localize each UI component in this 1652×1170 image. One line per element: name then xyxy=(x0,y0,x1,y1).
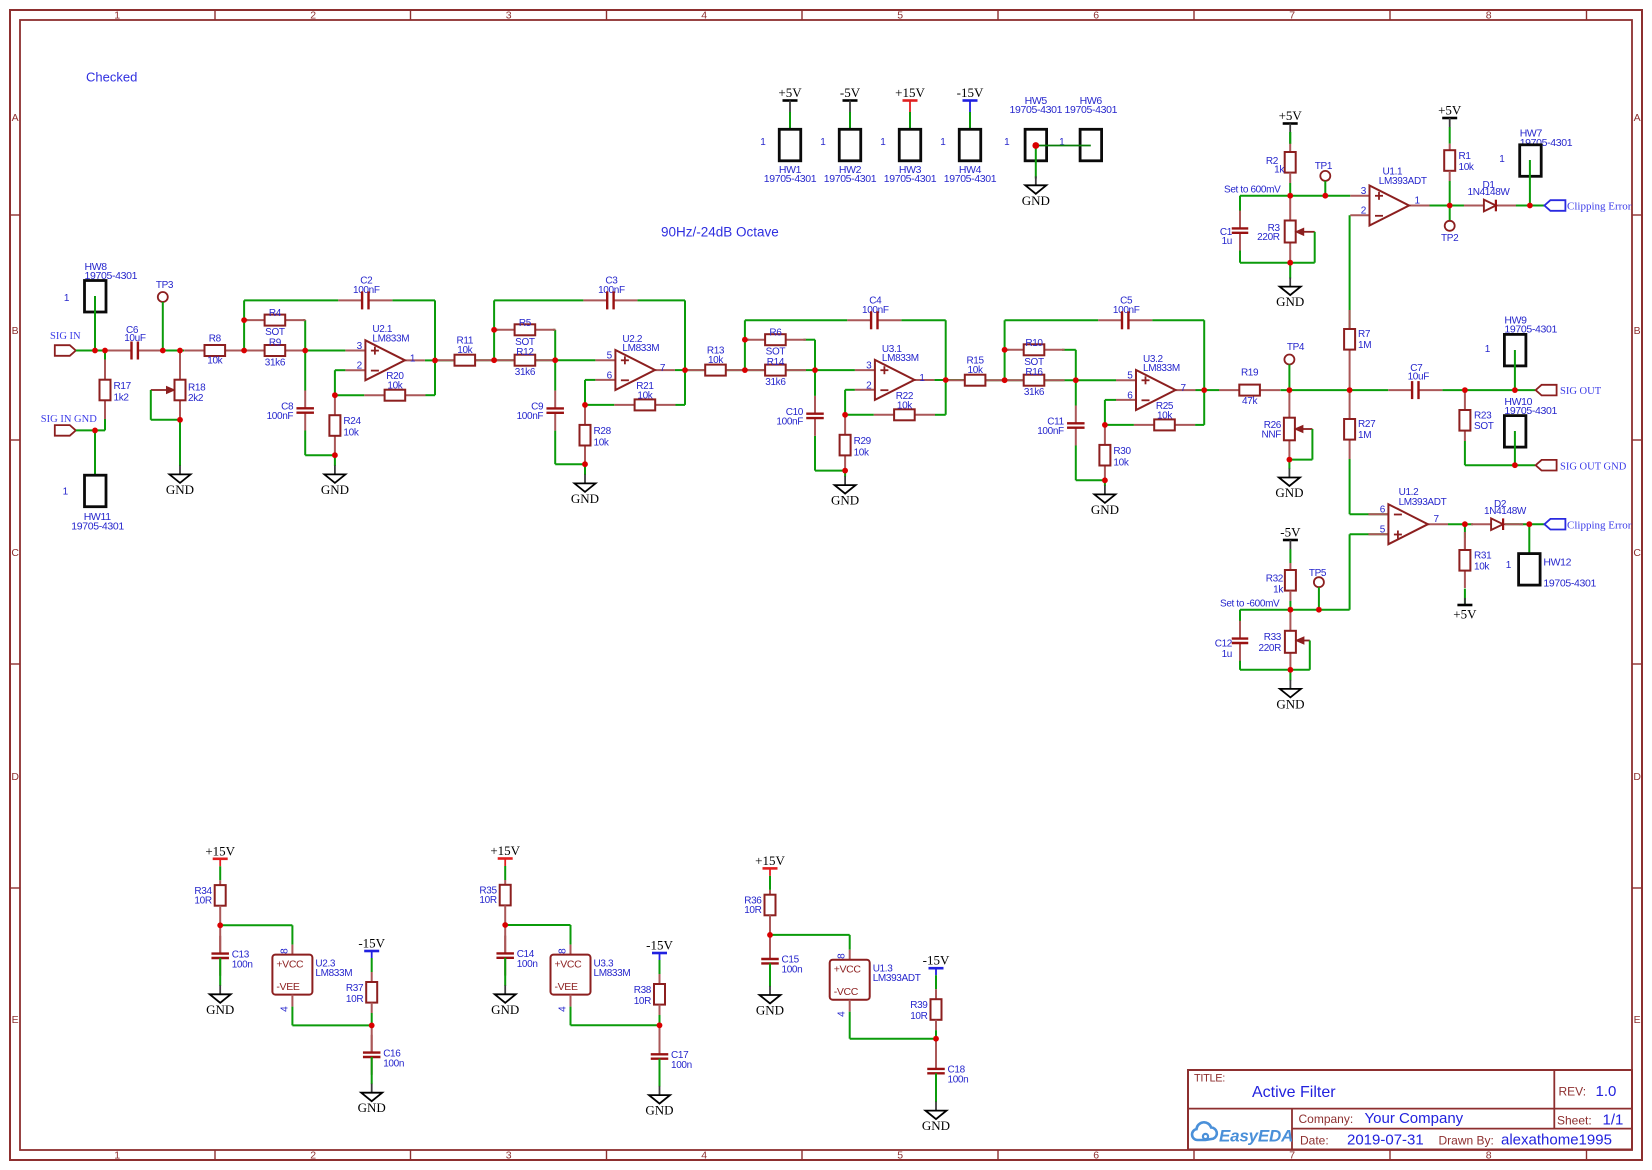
junction stage3 bottom xyxy=(842,468,848,474)
wire HW5 to GND xyxy=(1035,146,1037,179)
svg-text:R27: R27 xyxy=(1358,419,1376,430)
svg-text:R24: R24 xyxy=(343,416,361,427)
op-amp U2.2 LM833M xyxy=(595,334,675,390)
wire U3.3 VCC net xyxy=(505,925,570,945)
resistor R12 31k6 xyxy=(494,347,555,378)
junction stage3 feedback xyxy=(842,412,848,418)
wire +5V to HW1 xyxy=(789,112,791,145)
op-amp U1.1 LM393ADT xyxy=(1350,166,1429,225)
resistor R7 1M xyxy=(1344,215,1371,390)
wire U2.3 VEE net xyxy=(292,1007,371,1026)
resistor R35 10R xyxy=(479,880,510,925)
svg-text:C: C xyxy=(11,547,19,559)
svg-text:+15V: +15V xyxy=(755,853,785,868)
svg-text:5: 5 xyxy=(897,1149,903,1161)
svg-text:-15V: -15V xyxy=(957,85,984,100)
wire R3 to ground xyxy=(1289,263,1291,279)
power symbol +15V U2.3 xyxy=(205,843,235,866)
svg-text:1k: 1k xyxy=(1273,585,1284,596)
svg-text:31k6: 31k6 xyxy=(765,377,786,388)
connector HW2 19705-4301 xyxy=(820,129,877,185)
svg-text:R1: R1 xyxy=(1459,151,1472,162)
svg-text:1: 1 xyxy=(1485,344,1491,355)
svg-text:D: D xyxy=(1633,771,1641,783)
test point TP1 xyxy=(1315,161,1333,196)
resistor R22 10k feedback xyxy=(874,391,935,421)
svg-text:31k6: 31k6 xyxy=(265,358,286,369)
svg-text:GND: GND xyxy=(1276,696,1304,711)
net flag Clipping Error (bottom) xyxy=(1544,519,1631,532)
ground GND stage2 xyxy=(571,474,599,506)
svg-text:R29: R29 xyxy=(854,436,872,447)
power symbol +5V below R31 xyxy=(1453,598,1477,622)
resistor R39 10R xyxy=(910,975,941,1038)
svg-text:-15V: -15V xyxy=(923,953,950,968)
svg-text:R5: R5 xyxy=(519,318,532,329)
svg-text:GND: GND xyxy=(922,1118,950,1133)
capacitor C14 100n xyxy=(496,925,537,986)
junction R18 wiper xyxy=(177,417,183,423)
wire U1.2 output xyxy=(1448,523,1545,525)
wire SIG OUT GND row xyxy=(1465,464,1535,466)
junction stage4 SOT tap xyxy=(1002,347,1008,353)
svg-text:1M: 1M xyxy=(1358,430,1371,441)
IC U3.3 LM833M power pins xyxy=(551,945,631,1012)
svg-text:19705-4301: 19705-4301 xyxy=(764,173,817,185)
connector HW9 19705-4301 xyxy=(1485,314,1558,366)
Checked annotation xyxy=(86,70,137,85)
svg-text:R38: R38 xyxy=(634,985,652,996)
resistor R16 31k6 xyxy=(1003,367,1064,398)
svg-text:GND: GND xyxy=(358,1100,386,1115)
svg-text:10k: 10k xyxy=(457,345,473,356)
op-amp U3.1 LM833M xyxy=(855,344,935,400)
svg-text:R14: R14 xyxy=(767,357,785,368)
junction R1 bottom xyxy=(1447,203,1453,209)
svg-text:1: 1 xyxy=(820,137,826,148)
wire +15V to R36 xyxy=(769,876,771,890)
svg-text:4: 4 xyxy=(701,1149,707,1161)
svg-text:Date:: Date: xyxy=(1300,1134,1329,1148)
svg-text:100nF: 100nF xyxy=(776,416,803,427)
resistor R6 SOT xyxy=(745,328,806,358)
op-amp U1.2 LM393ADT xyxy=(1368,487,1448,544)
svg-text:19705-4301: 19705-4301 xyxy=(944,173,997,185)
resistor R38 10R xyxy=(634,960,665,1025)
junction R33 bottom xyxy=(1288,667,1294,673)
svg-text:SOT: SOT xyxy=(1024,357,1044,368)
svg-text:1k: 1k xyxy=(1274,165,1285,176)
svg-text:Active Filter: Active Filter xyxy=(1252,1084,1336,1101)
svg-text:8: 8 xyxy=(279,948,290,954)
capacitor C5 100nF xyxy=(1098,295,1152,329)
svg-text:GND: GND xyxy=(756,1003,784,1018)
junction TP1 xyxy=(1322,193,1328,199)
resistor R27 1M xyxy=(1344,390,1376,514)
svg-text:19705-4301: 19705-4301 xyxy=(884,173,937,185)
connector HW12 19705-4301 xyxy=(1506,524,1597,589)
svg-text:Clipping Error: Clipping Error xyxy=(1567,519,1632,531)
ground GND stage3 xyxy=(831,476,859,508)
svg-text:LM833M: LM833M xyxy=(372,334,409,345)
wire stage2 ground stub xyxy=(584,464,586,475)
svg-text:3: 3 xyxy=(506,9,512,21)
junction R23 tap xyxy=(1462,387,1468,393)
resistor R36 10R xyxy=(744,890,775,935)
junction HW5 xyxy=(1032,142,1039,149)
svg-text:220R: 220R xyxy=(1258,643,1281,654)
svg-text:100n: 100n xyxy=(517,959,538,970)
svg-text:E: E xyxy=(1634,1014,1641,1026)
junction stage3 SOT tap xyxy=(742,337,748,343)
svg-text:Set to 600mV: Set to 600mV xyxy=(1224,184,1281,195)
svg-text:EasyEDA: EasyEDA xyxy=(1219,1127,1293,1146)
resistor R30 10k to ground xyxy=(1099,425,1131,480)
svg-text:7: 7 xyxy=(1289,1149,1295,1161)
op-amp U3.2 LM833M xyxy=(1116,354,1196,410)
svg-text:1k2: 1k2 xyxy=(114,392,130,403)
connector HW1 19705-4301 xyxy=(760,129,817,185)
svg-text:LM833M: LM833M xyxy=(882,353,919,364)
svg-text:7: 7 xyxy=(1434,514,1440,525)
junction SIG IN GND xyxy=(92,428,98,434)
svg-text:4: 4 xyxy=(279,1006,290,1012)
svg-text:Checked: Checked xyxy=(86,70,137,85)
wire U3.3 VEE net xyxy=(571,1007,660,1026)
junction R18 tap xyxy=(177,348,183,354)
svg-text:6: 6 xyxy=(1380,505,1386,516)
svg-text:8: 8 xyxy=(558,948,569,954)
svg-text:2019-07-31: 2019-07-31 xyxy=(1347,1132,1424,1149)
capacitor C15 100n xyxy=(761,935,802,987)
svg-text:Sheet:: Sheet: xyxy=(1557,1114,1592,1128)
test point TP2 xyxy=(1441,206,1459,245)
svg-text:R8: R8 xyxy=(209,334,222,345)
svg-text:6: 6 xyxy=(1127,390,1133,401)
svg-text:+15V: +15V xyxy=(895,85,925,100)
resistor R9 31k6 xyxy=(244,338,305,369)
svg-text:10k: 10k xyxy=(387,381,403,392)
svg-text:10k: 10k xyxy=(1459,162,1475,173)
svg-text:+5V: +5V xyxy=(1453,607,1477,622)
junction R26 wiper xyxy=(1287,457,1293,463)
ground GND below R3 xyxy=(1276,278,1304,310)
svg-text:6: 6 xyxy=(1093,9,1099,21)
junction R2 bottom xyxy=(1287,193,1293,199)
svg-text:10uF: 10uF xyxy=(1408,371,1430,382)
junction stage1 J2 xyxy=(302,348,308,354)
IC U1.3 LM393ADT power pins xyxy=(830,950,921,1017)
ground GND below C17 xyxy=(645,1086,673,1118)
svg-text:LM833M: LM833M xyxy=(622,343,659,354)
svg-text:1: 1 xyxy=(410,353,416,364)
capacitor C17 100n xyxy=(651,1025,692,1086)
svg-text:10R: 10R xyxy=(744,905,761,916)
junction R7/R27 xyxy=(1347,387,1353,393)
junction HW12 xyxy=(1526,521,1532,527)
svg-text:D: D xyxy=(11,771,19,783)
junction stage3 input xyxy=(742,367,748,373)
junction stage1 bottom xyxy=(332,452,338,458)
power symbol -15V U1.3 xyxy=(923,953,950,976)
junction TP5 xyxy=(1316,607,1322,613)
svg-text:LM833M: LM833M xyxy=(1143,363,1180,374)
wire SIG IN GND row xyxy=(76,419,105,430)
svg-text:B: B xyxy=(1634,325,1641,337)
svg-text:Drawn By:: Drawn By: xyxy=(1439,1134,1494,1148)
wire SIG IN to junctions xyxy=(76,350,108,352)
wire stage4 main line xyxy=(980,320,1205,480)
svg-text:10R: 10R xyxy=(194,895,211,906)
junction stage2 bottom xyxy=(582,461,588,467)
svg-text:R23: R23 xyxy=(1474,411,1492,422)
capacitor C10 100nF xyxy=(776,396,823,436)
junction R17 tap xyxy=(102,348,108,354)
svg-text:R28: R28 xyxy=(594,426,612,437)
wire set to 600mV node xyxy=(1240,183,1350,263)
wire +5V to R2 xyxy=(1289,132,1291,144)
wire C6 to R8 xyxy=(162,350,185,352)
svg-text:LM833M: LM833M xyxy=(594,968,631,979)
svg-text:R16: R16 xyxy=(1025,367,1043,378)
resistor R32 1k xyxy=(1266,549,1296,610)
wire stage3 main line xyxy=(720,320,946,470)
wire -15V to HW4 xyxy=(969,112,971,145)
resistor R21 10k feedback xyxy=(614,381,675,411)
svg-text:R17: R17 xyxy=(114,381,132,392)
svg-text:E: E xyxy=(12,1014,19,1026)
svg-text:100nF: 100nF xyxy=(1037,426,1064,437)
svg-text:100nF: 100nF xyxy=(353,285,380,296)
svg-text:SIG IN: SIG IN xyxy=(50,331,81,342)
wire HW11 pin xyxy=(94,430,96,490)
svg-text:10k: 10k xyxy=(207,356,223,367)
resistor R31 10k xyxy=(1459,524,1492,605)
junction R31 top xyxy=(1462,521,1468,527)
net flag SIG IN GND xyxy=(41,414,97,436)
junction stage4 input xyxy=(1002,377,1008,383)
junction HW7 xyxy=(1527,203,1533,209)
junction TP3 xyxy=(160,348,166,354)
svg-text:LM833M: LM833M xyxy=(315,968,352,979)
diode D2 1N4148W xyxy=(1471,499,1527,530)
svg-text:5: 5 xyxy=(607,351,613,362)
svg-text:1u: 1u xyxy=(1222,649,1232,660)
svg-text:3: 3 xyxy=(866,361,872,372)
svg-text:SOT: SOT xyxy=(515,337,535,348)
junction HW9 xyxy=(1512,387,1518,393)
power symbol +15V xyxy=(895,85,925,112)
resistor R24 10k to ground xyxy=(329,395,361,455)
svg-text:A: A xyxy=(1634,112,1641,124)
svg-text:4: 4 xyxy=(558,1006,569,1012)
resistor R1 10k xyxy=(1444,127,1475,206)
junction stage3 output xyxy=(943,377,949,383)
power symbol +15V U1.3 xyxy=(755,853,785,876)
power symbol -15V U3.3 xyxy=(646,938,673,961)
svg-text:R30: R30 xyxy=(1113,446,1131,457)
svg-text:GND: GND xyxy=(321,482,349,497)
svg-text:R9: R9 xyxy=(269,338,282,349)
svg-text:5: 5 xyxy=(897,9,903,21)
junction R39 bottom xyxy=(933,1036,939,1042)
resistor R37 10R xyxy=(346,958,377,1025)
wire U1.1 output xyxy=(1430,205,1545,207)
svg-text:R33: R33 xyxy=(1264,632,1282,643)
svg-text:19705-4301: 19705-4301 xyxy=(1065,104,1118,116)
svg-text:10k: 10k xyxy=(1157,410,1173,421)
capacitor C7 10uF xyxy=(1388,363,1442,399)
svg-text:100nF: 100nF xyxy=(598,285,625,296)
wire +15V to R35 xyxy=(504,866,506,880)
svg-text:1: 1 xyxy=(114,1149,120,1161)
resistor R15 10k xyxy=(945,356,1006,386)
svg-text:1: 1 xyxy=(1506,560,1512,571)
svg-text:GND: GND xyxy=(831,493,859,508)
svg-text:R6: R6 xyxy=(769,328,782,339)
svg-text:8: 8 xyxy=(1486,9,1492,21)
ground GND below C18 xyxy=(922,1102,950,1134)
capacitor C11 100nF xyxy=(1037,406,1084,446)
svg-text:SOT: SOT xyxy=(265,327,285,338)
svg-text:GND: GND xyxy=(1275,485,1303,500)
svg-text:GND: GND xyxy=(166,482,194,497)
svg-text:TP3: TP3 xyxy=(156,280,174,291)
ground GND below R33 xyxy=(1276,680,1304,712)
svg-text:Clipping Error: Clipping Error xyxy=(1567,201,1632,213)
svg-text:100nF: 100nF xyxy=(862,305,889,316)
resistor R19 47k xyxy=(1219,368,1280,408)
svg-text:2: 2 xyxy=(357,361,363,372)
potentiometer R33 220R xyxy=(1258,610,1309,670)
svg-text:6: 6 xyxy=(1093,1149,1099,1161)
svg-text:R4: R4 xyxy=(269,308,282,319)
connector HW5 19705-4301 xyxy=(1004,95,1063,161)
junction stage4 feedback xyxy=(1102,422,1108,428)
wire HW9 pin xyxy=(1514,350,1516,390)
connector HW10 19705-4301 xyxy=(1504,396,1557,465)
svg-text:TITLE:: TITLE: xyxy=(1194,1073,1225,1085)
svg-text:-15V: -15V xyxy=(646,938,673,953)
ground GND below C14 xyxy=(491,985,519,1017)
svg-text:10R: 10R xyxy=(479,895,496,906)
capacitor C16 100n xyxy=(363,1025,404,1084)
power symbol -15V U2.3 xyxy=(358,936,385,959)
wire U1.3 VCC net xyxy=(770,935,850,950)
test point TP5 xyxy=(1309,568,1327,610)
wire stage2 main line xyxy=(469,300,685,464)
power symbol -5V above R32 xyxy=(1280,525,1301,550)
net flag Clipping Error (top) xyxy=(1544,200,1631,213)
resistor R28 10k to ground xyxy=(580,405,612,464)
svg-text:GND: GND xyxy=(1022,193,1050,208)
resistor R2 1k xyxy=(1266,132,1296,183)
svg-text:1: 1 xyxy=(1004,137,1010,148)
test point TP3 xyxy=(156,280,174,351)
capacitor C18 100n xyxy=(927,1039,968,1102)
junction stage2 input xyxy=(491,357,497,363)
svg-text:R7: R7 xyxy=(1358,329,1371,340)
wire +15V to HW3 xyxy=(909,112,911,145)
svg-text:2: 2 xyxy=(866,380,872,391)
svg-text:R37: R37 xyxy=(346,983,364,994)
svg-text:10k: 10k xyxy=(1113,457,1129,468)
wire U1.2 plus input xyxy=(1319,534,1389,610)
svg-text:100n: 100n xyxy=(948,1075,969,1086)
capacitor C6 10uF xyxy=(108,325,162,360)
svg-text:100nF: 100nF xyxy=(1113,305,1140,316)
svg-text:LM393ADT: LM393ADT xyxy=(1399,497,1447,508)
potentiometer R3 220R xyxy=(1257,196,1315,263)
svg-text:+VCC: +VCC xyxy=(276,959,304,971)
svg-text:100n: 100n xyxy=(383,1058,404,1069)
connector HW11 19705-4301 xyxy=(63,475,125,532)
svg-text:1: 1 xyxy=(760,137,766,148)
svg-text:19705-4301: 19705-4301 xyxy=(1543,577,1596,589)
power symbol +15V U3.3 xyxy=(490,843,520,866)
capacitor C12 1u xyxy=(1215,621,1249,661)
net flag SIG IN xyxy=(50,331,81,356)
ground GND below C13 xyxy=(206,985,234,1017)
svg-text:100nF: 100nF xyxy=(267,411,294,422)
svg-text:10k: 10k xyxy=(708,355,724,366)
svg-text:2: 2 xyxy=(1361,206,1367,217)
resistor R13 10k xyxy=(685,346,746,376)
wire HW8 pin xyxy=(94,296,96,351)
svg-text:GND: GND xyxy=(491,1002,519,1017)
junction R36 bottom xyxy=(767,932,773,938)
svg-text:220R: 220R xyxy=(1257,232,1280,243)
svg-text:3: 3 xyxy=(357,341,363,352)
resistor R25 10k feedback xyxy=(1134,401,1195,431)
svg-text:10k: 10k xyxy=(637,390,653,401)
svg-text:7: 7 xyxy=(660,363,666,374)
ground GND below C16 xyxy=(358,1084,386,1116)
svg-text:R32: R32 xyxy=(1266,574,1284,585)
junction HW10 xyxy=(1512,462,1518,468)
svg-text:2: 2 xyxy=(310,1149,316,1161)
svg-text:1: 1 xyxy=(919,373,925,384)
svg-text:31k6: 31k6 xyxy=(515,367,536,378)
svg-text:REV:: REV: xyxy=(1559,1085,1587,1099)
connector HW7 19705-4301 xyxy=(1499,127,1572,205)
svg-text:R10: R10 xyxy=(1025,338,1043,349)
capacitor C3 100nF xyxy=(583,275,637,309)
svg-text:10R: 10R xyxy=(346,994,363,1005)
junction stage2 SOT tap xyxy=(491,327,497,333)
svg-text:10k: 10k xyxy=(854,447,870,458)
capacitor C8 100nF xyxy=(267,391,314,431)
svg-text:-VCC: -VCC xyxy=(834,986,859,998)
svg-text:1: 1 xyxy=(64,293,70,304)
power symbol -5V xyxy=(840,85,861,112)
svg-text:10k: 10k xyxy=(594,437,610,448)
svg-text:100nF: 100nF xyxy=(517,411,544,422)
svg-text:100n: 100n xyxy=(671,1060,692,1071)
svg-text:100n: 100n xyxy=(232,959,253,970)
potentiometer R18 2k2 xyxy=(151,351,206,420)
svg-text:GND: GND xyxy=(645,1103,673,1118)
svg-text:1: 1 xyxy=(1499,154,1505,165)
svg-text:8: 8 xyxy=(1486,1149,1492,1161)
svg-text:-VEE: -VEE xyxy=(555,981,578,993)
ground GND below HW5 xyxy=(1022,176,1050,208)
svg-text:19705-4301: 19705-4301 xyxy=(71,521,124,533)
svg-text:3: 3 xyxy=(1361,186,1367,197)
wire set to -600mV node xyxy=(1240,610,1319,670)
resistor R23 SOT xyxy=(1459,390,1493,465)
junction R34 bottom xyxy=(217,922,223,928)
